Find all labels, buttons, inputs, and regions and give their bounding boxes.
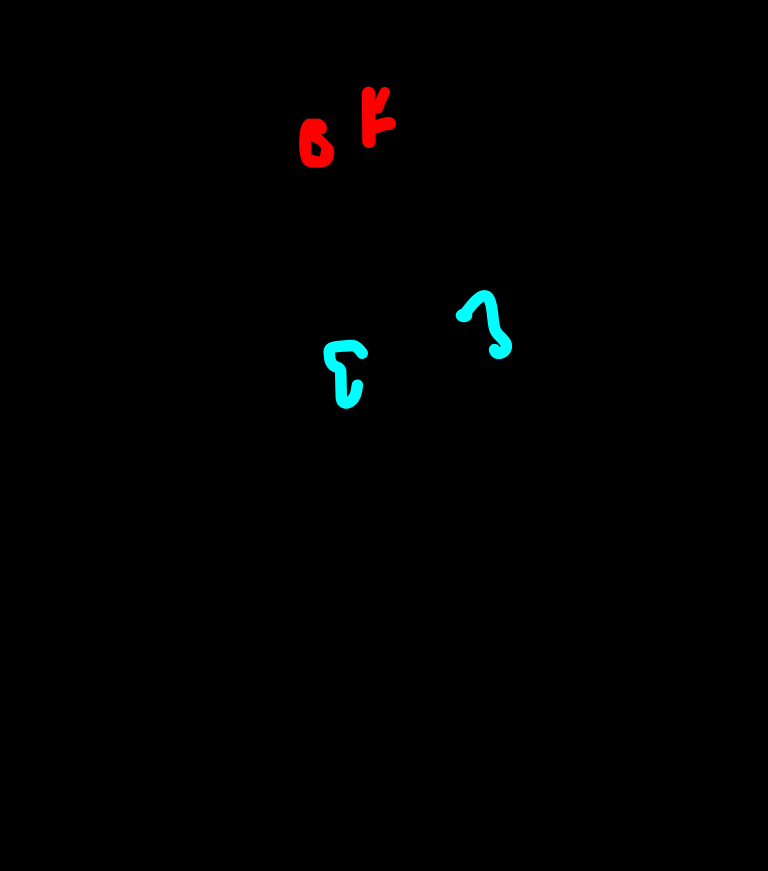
cyan left squiggle (329, 345, 362, 403)
cyan right squiggle start blob (456, 309, 473, 323)
red scribble "K" vertical bar (362, 93, 376, 141)
red scribble "K" upper-right prong (378, 92, 385, 108)
cyan right squiggle (464, 296, 507, 354)
red scribble "6" (filled outline with kite-shaped hole and notch) (299, 119, 334, 168)
red scribble "K" lower-right arm (378, 124, 390, 127)
